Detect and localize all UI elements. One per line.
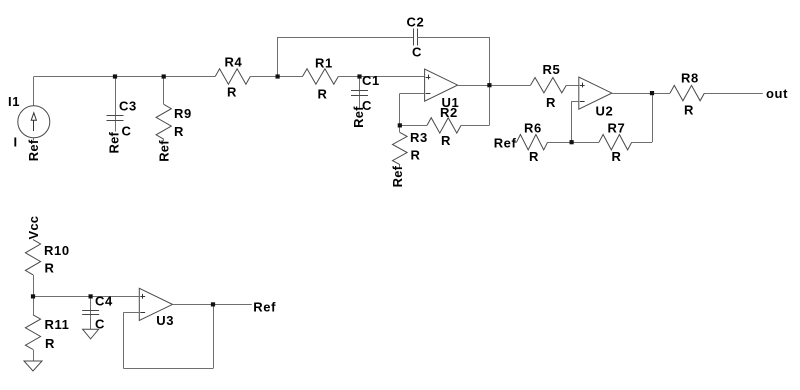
svg-text:C: C xyxy=(95,317,105,332)
svg-text:Ref: Ref xyxy=(26,139,41,161)
svg-text:R: R xyxy=(546,95,556,110)
svg-text:R3: R3 xyxy=(410,130,428,145)
svg-text:R: R xyxy=(411,147,421,162)
svg-text:Ref: Ref xyxy=(253,300,276,315)
svg-text:U2: U2 xyxy=(596,103,614,118)
svg-text:C1: C1 xyxy=(362,73,380,88)
svg-text:I: I xyxy=(14,135,18,150)
svg-text:R: R xyxy=(45,336,55,351)
svg-text:R: R xyxy=(684,103,694,118)
svg-text:R1: R1 xyxy=(315,55,333,70)
svg-text:I1: I1 xyxy=(8,94,20,109)
svg-text:C2: C2 xyxy=(407,15,425,30)
svg-text:R: R xyxy=(612,149,622,164)
svg-text:out: out xyxy=(766,86,788,101)
svg-text:C4: C4 xyxy=(95,293,113,308)
svg-text:R: R xyxy=(174,124,184,139)
svg-text:R: R xyxy=(45,261,55,276)
svg-text:Vcc: Vcc xyxy=(26,216,41,240)
svg-text:C: C xyxy=(122,124,132,139)
svg-text:R6: R6 xyxy=(524,121,542,136)
svg-text:R9: R9 xyxy=(174,106,192,121)
svg-text:R4: R4 xyxy=(225,54,243,69)
svg-text:Ref: Ref xyxy=(390,165,405,187)
svg-text:R7: R7 xyxy=(608,121,626,136)
svg-text:R10: R10 xyxy=(44,243,70,258)
svg-text:C: C xyxy=(412,45,422,60)
svg-text:R11: R11 xyxy=(45,317,70,332)
svg-text:Ref: Ref xyxy=(351,106,366,128)
svg-text:R: R xyxy=(529,149,539,164)
svg-text:R: R xyxy=(227,85,237,100)
svg-text:C3: C3 xyxy=(119,98,137,113)
svg-text:R: R xyxy=(441,133,451,148)
svg-text:R8: R8 xyxy=(681,71,699,86)
svg-text:R5: R5 xyxy=(543,62,561,77)
svg-text:Ref: Ref xyxy=(494,135,517,150)
svg-text:Ref: Ref xyxy=(107,131,122,153)
svg-text:U3: U3 xyxy=(156,313,174,328)
svg-text:Ref: Ref xyxy=(156,140,171,162)
svg-text:R2: R2 xyxy=(440,105,458,120)
svg-text:R: R xyxy=(318,86,328,101)
